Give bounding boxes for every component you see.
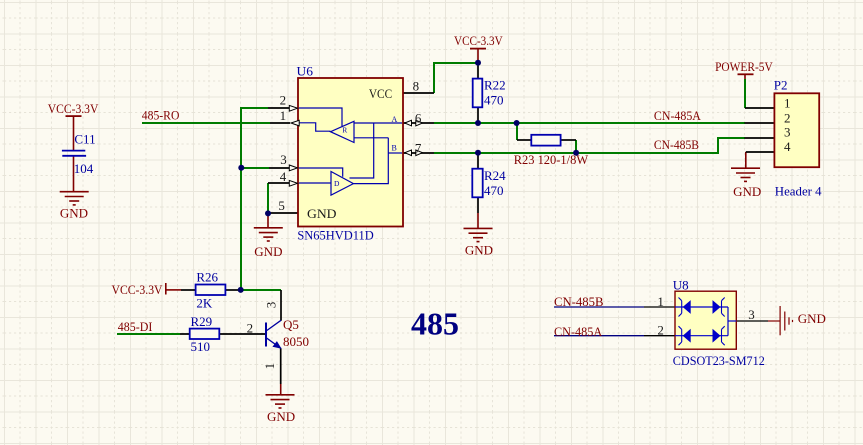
svg-text:U6: U6 — [297, 64, 314, 79]
svg-text:3: 3 — [784, 125, 791, 140]
svg-text:B: B — [392, 144, 397, 153]
svg-text:Header 4: Header 4 — [775, 183, 822, 198]
svg-text:A: A — [392, 115, 398, 124]
svg-text:R22: R22 — [484, 78, 506, 93]
svg-text:6: 6 — [415, 110, 422, 125]
svg-text:485-DI: 485-DI — [118, 319, 153, 334]
svg-text:VCC-3.3V: VCC-3.3V — [112, 282, 164, 297]
svg-text:3: 3 — [264, 302, 279, 309]
svg-text:2: 2 — [247, 321, 254, 336]
svg-text:1: 1 — [784, 95, 791, 110]
svg-text:CN-485B: CN-485B — [654, 137, 699, 152]
svg-text:R24: R24 — [484, 168, 506, 183]
svg-text:1: 1 — [280, 108, 287, 123]
svg-text:R29: R29 — [191, 314, 213, 329]
svg-text:VCC-3.3V: VCC-3.3V — [454, 33, 503, 48]
svg-text:8050: 8050 — [283, 334, 309, 349]
svg-text:2: 2 — [784, 110, 791, 125]
svg-text:4: 4 — [280, 169, 287, 184]
svg-text:Q5: Q5 — [283, 317, 299, 332]
svg-text:VCC-3.3V: VCC-3.3V — [48, 101, 99, 116]
svg-text:U8: U8 — [673, 277, 689, 292]
svg-text:3: 3 — [748, 307, 755, 322]
svg-text:8: 8 — [413, 78, 420, 93]
svg-text:104: 104 — [74, 161, 94, 176]
svg-text:1: 1 — [262, 363, 277, 370]
svg-text:VCC: VCC — [369, 86, 392, 101]
svg-text:485-RO: 485-RO — [142, 108, 180, 123]
svg-text:P2: P2 — [774, 77, 788, 92]
svg-text:510: 510 — [191, 339, 211, 354]
svg-text:CN-485A: CN-485A — [654, 108, 702, 123]
svg-text:POWER-5V: POWER-5V — [715, 59, 773, 74]
svg-text:485: 485 — [411, 306, 459, 342]
svg-text:D: D — [334, 179, 340, 188]
svg-text:GND: GND — [60, 205, 88, 220]
svg-text:CN-485A: CN-485A — [554, 324, 603, 339]
svg-text:CDSOT23-SM712: CDSOT23-SM712 — [673, 353, 765, 368]
svg-text:470: 470 — [484, 183, 504, 198]
svg-text:R26: R26 — [196, 270, 218, 285]
svg-text:GND: GND — [798, 311, 826, 326]
svg-text:GND: GND — [307, 206, 337, 221]
svg-text:4: 4 — [784, 139, 791, 154]
svg-text:SN65HVD11D: SN65HVD11D — [297, 228, 373, 243]
svg-text:GND: GND — [465, 243, 493, 258]
svg-text:2K: 2K — [196, 296, 213, 311]
svg-text:7: 7 — [415, 141, 422, 156]
svg-text:GND: GND — [267, 409, 295, 424]
svg-text:5: 5 — [278, 198, 285, 213]
svg-text:R: R — [342, 126, 347, 135]
svg-text:2: 2 — [657, 323, 664, 338]
svg-text:3: 3 — [280, 152, 287, 167]
svg-text:GND: GND — [733, 184, 761, 199]
svg-text:GND: GND — [254, 244, 282, 259]
svg-text:1: 1 — [657, 294, 664, 309]
svg-text:C11: C11 — [74, 132, 95, 147]
svg-text:470: 470 — [484, 93, 504, 108]
svg-text:CN-485B: CN-485B — [554, 294, 604, 309]
svg-text:2: 2 — [280, 92, 287, 107]
